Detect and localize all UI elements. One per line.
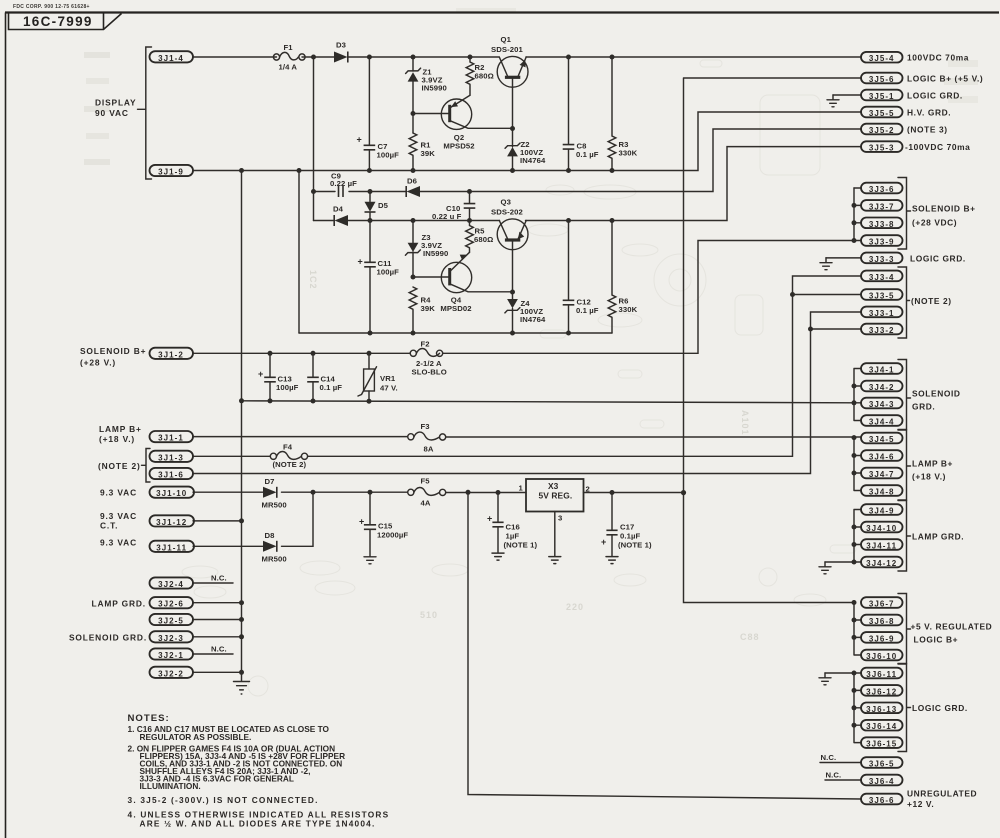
connector 3J1-12 xyxy=(150,515,195,527)
node 9.3VAC center tap xyxy=(239,518,244,523)
svg-text:3J3-1: 3J3-1 xyxy=(869,309,895,318)
wire 3J3-5 stub xyxy=(793,294,862,296)
connector 3J4-6 xyxy=(861,450,903,461)
connector 3J1-1 xyxy=(150,431,194,443)
connector 3J3-9 xyxy=(861,235,903,246)
regulator X3 xyxy=(519,479,590,556)
transistor Q3 xyxy=(491,198,528,293)
transistor Q4 xyxy=(440,252,512,313)
connector 3J4-2 xyxy=(861,381,903,392)
svg-text:3J2-5: 3J2-5 xyxy=(158,617,184,626)
svg-text:MPSD02: MPSD02 xyxy=(440,304,471,313)
diode D5 xyxy=(365,192,389,221)
svg-text:2: 2 xyxy=(586,485,590,494)
svg-text:3J3-2: 3J3-2 xyxy=(869,326,895,335)
svg-text:3J4-4: 3J4-4 xyxy=(869,418,895,427)
svg-text:220: 220 xyxy=(566,602,584,612)
wire 3J2-2 stub xyxy=(193,671,242,673)
svg-text:+: + xyxy=(359,517,364,527)
title box 16C-7999 xyxy=(9,14,122,30)
connector 3J6-10 xyxy=(861,650,903,661)
svg-text:4A: 4A xyxy=(421,499,431,508)
svg-text:3J2-6: 3J2-6 xyxy=(158,600,184,609)
svg-text:100µF: 100µF xyxy=(377,151,400,160)
svg-text:3J4-5: 3J4-5 xyxy=(869,435,895,444)
svg-text:LAMP GRD.: LAMP GRD. xyxy=(912,532,964,542)
connector 3J4-1 xyxy=(861,363,903,374)
connector 3J1-10 xyxy=(150,487,195,499)
connector 3J6-6 xyxy=(861,794,903,805)
connector 3J1-4 xyxy=(150,51,194,63)
left border rule xyxy=(5,13,7,838)
svg-text:+5 V. REGULATED: +5 V. REGULATED xyxy=(911,622,993,632)
svg-text:C16: C16 xyxy=(506,523,520,532)
svg-text:5V REG.: 5V REG. xyxy=(539,491,573,501)
svg-text:3J3-6: 3J3-6 xyxy=(869,185,895,194)
svg-text:C15: C15 xyxy=(378,522,393,531)
svg-text:IN4764: IN4764 xyxy=(520,315,546,324)
wire 3J2-4 N.C. stub xyxy=(193,582,233,584)
diode D6 xyxy=(406,177,420,198)
connector 3J4-12 xyxy=(861,557,903,568)
svg-text:3J6-6: 3J6-6 xyxy=(869,796,895,805)
svg-text:3J6-12: 3J6-12 xyxy=(866,687,897,696)
svg-text:D3: D3 xyxy=(336,41,346,50)
svg-text:C.T.: C.T. xyxy=(100,521,118,531)
svg-text:D8: D8 xyxy=(265,531,276,540)
svg-text:+12 V.: +12 V. xyxy=(907,799,934,809)
svg-text:9.3 VAC: 9.3 VAC xyxy=(100,488,137,498)
svg-text:FDC CORP. 900 12-75 61628+: FDC CORP. 900 12-75 61628+ xyxy=(13,4,90,10)
svg-text:3J6-13: 3J6-13 xyxy=(866,705,897,714)
capacitor C9 xyxy=(330,172,357,198)
wire 3J4 lamp grd bus xyxy=(854,510,861,563)
label 9.3 VAC C.T. (3J1-12) xyxy=(100,511,137,531)
connector 3J5-1 xyxy=(861,90,903,101)
svg-text:1C2: 1C2 xyxy=(308,270,318,290)
wire H.V. ground rail y=170 (3J1-9 to 3J5-5 riser) xyxy=(193,112,861,171)
connector 3J4-7 xyxy=(861,468,903,479)
svg-text:3J3-8: 3J3-8 xyxy=(869,220,895,229)
svg-text:+: + xyxy=(357,135,362,145)
svg-text:(NOTE 1): (NOTE 1) xyxy=(504,541,538,550)
svg-text:3J3-9: 3J3-9 xyxy=(869,238,895,247)
wire 3J6-11 ground stub xyxy=(825,672,854,674)
wire 3J6 +5V bus xyxy=(854,603,861,656)
svg-text:3J3-5: 3J3-5 xyxy=(869,292,895,301)
svg-text:510: 510 xyxy=(420,610,438,620)
svg-text:SOLENOID B+: SOLENOID B+ xyxy=(912,204,976,214)
connector 3J2-2 xyxy=(150,667,194,679)
svg-text:3J6-8: 3J6-8 xyxy=(869,617,895,626)
wire 3J1-3 to F4 to 3J3-4 riser xyxy=(193,276,861,456)
svg-text:NOTES:: NOTES: xyxy=(128,713,170,724)
svg-text:3J6-4: 3J6-4 xyxy=(869,777,895,786)
connector 3J3-6 xyxy=(861,183,903,194)
svg-text:3J6-5: 3J6-5 xyxy=(869,760,895,769)
svg-text:D5: D5 xyxy=(378,201,389,210)
bracket 3J4 lamp grd xyxy=(898,501,964,572)
svg-text:D4: D4 xyxy=(333,205,344,214)
ground (3J2 common) xyxy=(234,682,250,695)
capacitor C7 xyxy=(357,57,400,171)
svg-text:100µF: 100µF xyxy=(276,383,299,392)
diode D3 xyxy=(334,41,348,63)
top border rule xyxy=(5,11,999,13)
connector 3J2-1 xyxy=(150,648,194,660)
svg-text:LOGIC GRD.: LOGIC GRD. xyxy=(912,703,968,713)
svg-text:ARE ½ W. AND ALL DIODES ARE TY: ARE ½ W. AND ALL DIODES ARE TYPE 1N4004. xyxy=(140,819,376,829)
wire Q2 base xyxy=(413,113,448,115)
wire 3J2-1 N.C. stub xyxy=(193,653,233,655)
svg-text:0.1 µF: 0.1 µF xyxy=(576,306,599,315)
svg-text:3J6-14: 3J6-14 xyxy=(866,722,897,731)
wire 3J3-6 bus stubs xyxy=(854,188,861,223)
ground (3J5-1) xyxy=(827,95,839,107)
connector 3J6-8 xyxy=(861,615,903,626)
diode D7 xyxy=(262,477,287,510)
svg-text:3J6-11: 3J6-11 xyxy=(866,670,897,679)
svg-text:C88: C88 xyxy=(740,632,760,642)
svg-text:+: + xyxy=(358,257,363,267)
svg-text:(NOTE 2): (NOTE 2) xyxy=(98,461,141,471)
svg-text:3: 3 xyxy=(558,514,562,523)
resistor R2 xyxy=(466,57,494,95)
connector 3J3-4 xyxy=(861,271,903,282)
svg-text:39K: 39K xyxy=(421,149,436,158)
wire lamp B+ y=437 (3J1-1 to F3 to 3J4-5) xyxy=(193,436,861,438)
capacitor C17 xyxy=(601,493,652,557)
connector 3J6-12 xyxy=(861,685,903,696)
capacitor C12 xyxy=(563,221,599,334)
svg-text:1µF: 1µF xyxy=(506,532,520,541)
connector 3J2-3 xyxy=(150,631,194,643)
wire C9/D6 line y=191.5 (to 3J5-2) xyxy=(314,129,862,192)
wire +100V top rail (3J1-4 to F1 D3 and 3J5-4) xyxy=(193,56,861,58)
diode D8 xyxy=(262,531,287,564)
svg-text:100µF: 100µF xyxy=(377,268,400,277)
svg-text:3. 3J5-2 (-300V.) IS NOT CONNE: 3. 3J5-2 (-300V.) IS NOT CONNECTED. xyxy=(128,795,319,805)
connector 3J5-3 xyxy=(861,141,903,152)
label SOLENOID B+ left xyxy=(80,346,146,368)
svg-text:SDS-202: SDS-202 xyxy=(491,208,523,217)
wire 3J2-6 stub xyxy=(193,602,242,604)
wire -100V section left riser x=299 xyxy=(298,171,300,334)
svg-text:3J1-4: 3J1-4 xyxy=(158,54,184,63)
diode D4 xyxy=(333,205,348,227)
resistor R5 xyxy=(466,221,494,253)
svg-text:IN4764: IN4764 xyxy=(520,156,546,165)
svg-text:16C-7999: 16C-7999 xyxy=(23,14,93,29)
resistor R3 xyxy=(608,57,637,171)
svg-text:3J5-5: 3J5-5 xyxy=(869,109,895,118)
svg-text:VR1: VR1 xyxy=(380,374,396,383)
svg-text:12000µF: 12000µF xyxy=(377,531,408,540)
connector 3J4-4 xyxy=(861,415,903,426)
svg-text:GRD.: GRD. xyxy=(912,402,935,412)
ground (C15) xyxy=(364,557,376,564)
svg-text:D6: D6 xyxy=(407,177,417,186)
ground (3J3-3) xyxy=(820,258,832,270)
connector 3J3-1 xyxy=(861,307,903,318)
ground (3J4-12) xyxy=(819,562,831,574)
connector 3J2-5 xyxy=(150,614,194,626)
svg-text:+: + xyxy=(258,369,263,379)
connector 3J3-8 xyxy=(861,218,903,229)
svg-text:0.1 µF: 0.1 µF xyxy=(320,383,343,392)
wire 3J4-12 ground stub xyxy=(825,561,854,563)
connector 3J6-7 xyxy=(861,597,903,608)
connector 3J1-2 xyxy=(150,348,194,360)
bracket 3J6 +5V regulated xyxy=(898,594,992,664)
connector 3J2-4 xyxy=(150,577,194,589)
svg-text:(+18 V.): (+18 V.) xyxy=(99,434,135,444)
svg-text:0.1µF: 0.1µF xyxy=(620,532,641,541)
junction dots 3J6 buses xyxy=(852,600,857,728)
wire 3J5-6 +5V logic B+ riser x=683.5 xyxy=(684,78,862,603)
capacitor C11 xyxy=(358,221,400,334)
fuse F1 xyxy=(273,43,305,72)
connector 3J6-4 xyxy=(861,775,903,786)
wire 3J1-12 center tap xyxy=(193,520,242,522)
svg-text:3J6-15: 3J6-15 xyxy=(866,740,897,749)
capacitor C14 xyxy=(307,353,342,401)
wire 3J3 solenoid B+ bus xyxy=(853,188,855,241)
svg-text:330K: 330K xyxy=(619,149,638,158)
wire solenoid B+ y=353 (3J1-2 to F2 to 3J3-9) xyxy=(193,241,861,354)
connector 3J5-6 xyxy=(861,73,903,84)
bracket DISPLAY 90VAC xyxy=(95,47,152,179)
notes block xyxy=(128,713,390,829)
wire 3J4 solenoid grd bus xyxy=(854,369,861,421)
node Q2 collector to Q1 base xyxy=(510,126,515,131)
junction dots 3J2 ground bus xyxy=(239,600,244,675)
fuse F2 xyxy=(410,340,447,377)
connector 3J6-5 xyxy=(861,757,903,768)
svg-text:3J2-3: 3J2-3 xyxy=(158,634,184,643)
svg-text:3J1-2: 3J1-2 xyxy=(158,350,184,359)
svg-text:3J2-2: 3J2-2 xyxy=(158,669,184,678)
transistor Q1 xyxy=(491,35,528,129)
svg-text:0.1 µF: 0.1 µF xyxy=(576,150,599,159)
junction dots C9/D6 line xyxy=(311,189,472,194)
svg-text:3J1-11: 3J1-11 xyxy=(156,543,187,552)
svg-text:3J3-4: 3J3-4 xyxy=(869,273,895,282)
svg-text:(+28 V.): (+28 V.) xyxy=(80,358,116,368)
svg-text:47 V.: 47 V. xyxy=(380,384,398,393)
connector 3J4-11 xyxy=(861,539,903,550)
connector 3J6-11 xyxy=(861,668,903,679)
svg-text:3J5-4: 3J5-4 xyxy=(869,54,895,63)
wire -100V output line y=220.5 (to 3J5-3) xyxy=(314,147,862,221)
wire 3J4 lamp B+ bus xyxy=(854,438,861,491)
zener Z1 xyxy=(406,57,447,133)
bracket 3J6 logic grd xyxy=(898,664,968,752)
svg-text:100VDC 70ma: 100VDC 70ma xyxy=(907,53,969,63)
bracket 3J3 (NOTE 2) xyxy=(898,267,952,338)
wire 9.3VAC D7 rectified +12V line y=492 xyxy=(193,491,684,493)
zener Z4 xyxy=(505,292,546,333)
svg-text:LOGIC GRD.: LOGIC GRD. xyxy=(907,90,963,100)
wire 3J2-5 stub xyxy=(193,619,242,621)
svg-text:N.C.: N.C. xyxy=(211,645,227,654)
svg-text:3J5-6: 3J5-6 xyxy=(869,75,895,84)
svg-text:1/4 A: 1/4 A xyxy=(279,63,298,72)
svg-text:(NOTE 2): (NOTE 2) xyxy=(273,460,307,469)
svg-text:H.V. GRD.: H.V. GRD. xyxy=(907,107,951,117)
svg-text:(NOTE 1): (NOTE 1) xyxy=(618,541,652,550)
svg-text:(+28 VDC): (+28 VDC) xyxy=(912,218,957,228)
svg-text:3J5-3: 3J5-3 xyxy=(869,144,895,153)
svg-text:UNREGULATED: UNREGULATED xyxy=(907,789,977,799)
resistor R1 xyxy=(409,133,435,171)
svg-text:+: + xyxy=(487,514,492,524)
svg-text:3J3-3: 3J3-3 xyxy=(869,255,895,264)
svg-text:3J4-12: 3J4-12 xyxy=(866,559,897,568)
wire 3J2-3 stub xyxy=(193,636,242,638)
connector 3J4-10 xyxy=(861,522,903,533)
bracket 3J4 lamp B+ xyxy=(898,430,953,500)
wire unregulated +12V to 3J6-6 xyxy=(468,492,861,799)
svg-text:F2: F2 xyxy=(421,340,430,349)
ground (X3 pin 3) xyxy=(549,557,561,564)
junction dots +12V line xyxy=(311,490,687,496)
svg-text:F4: F4 xyxy=(283,443,293,452)
svg-text:LAMP B+: LAMP B+ xyxy=(912,459,953,469)
capacitor C15 xyxy=(359,492,408,556)
connector 3J6-9 xyxy=(861,632,903,643)
wire 3J3-2 stub xyxy=(811,328,862,330)
connector 3J2-6 xyxy=(150,597,194,609)
node Q4 collector to Q3 base xyxy=(510,290,515,295)
junction dots solenoid B+ line xyxy=(268,351,372,356)
resistor R6 xyxy=(608,221,637,334)
svg-text:C17: C17 xyxy=(620,523,634,532)
wire rectifier node riser x=313.5 xyxy=(313,57,315,221)
ground (C17) xyxy=(606,557,618,564)
svg-text:90 VAC: 90 VAC xyxy=(95,108,129,118)
svg-text:X3: X3 xyxy=(548,481,559,491)
svg-text:SOLENOID: SOLENOID xyxy=(912,389,961,399)
wire 3J1-6 to 3J3-1 riser xyxy=(193,312,861,474)
zener Z2 xyxy=(505,128,546,171)
connector 3J1-6 xyxy=(150,468,194,480)
resistor R4 xyxy=(409,287,435,333)
node 3J3-2 tie xyxy=(808,327,813,332)
svg-text:3J4-7: 3J4-7 xyxy=(869,470,895,479)
connector 3J4-5 xyxy=(861,433,903,444)
svg-text:-100VDC 70ma: -100VDC 70ma xyxy=(905,142,970,152)
svg-text:D7: D7 xyxy=(265,477,275,486)
svg-text:3J2-4: 3J2-4 xyxy=(158,580,184,589)
svg-text:3J4-11: 3J4-11 xyxy=(866,542,897,551)
svg-text:+: + xyxy=(601,537,606,547)
svg-text:9.3 VAC: 9.3 VAC xyxy=(100,538,137,548)
svg-text:680Ω: 680Ω xyxy=(474,235,493,244)
svg-text:3J3-7: 3J3-7 xyxy=(869,202,895,211)
svg-text:3J1-10: 3J1-10 xyxy=(156,489,187,498)
node lamp B+ at 3J4-5 xyxy=(852,435,857,440)
connector 3J4-9 xyxy=(861,504,903,515)
svg-text:F1: F1 xyxy=(284,43,294,52)
svg-text:(+18 V.): (+18 V.) xyxy=(912,472,946,482)
svg-text:0.22 u F: 0.22 u F xyxy=(432,212,462,221)
svg-text:9.3 VAC: 9.3 VAC xyxy=(100,511,137,521)
svg-text:N.C.: N.C. xyxy=(211,574,227,583)
transistor Q2 xyxy=(441,95,512,150)
svg-text:ILLUMINATION.: ILLUMINATION. xyxy=(140,781,201,791)
fuse F3 xyxy=(408,422,446,454)
node Q4 base xyxy=(411,275,416,280)
connector 3J3-7 xyxy=(861,200,903,211)
connector 3J6-15 xyxy=(861,737,903,748)
connector 3J4-3 xyxy=(861,398,903,409)
connector 3J1-9 xyxy=(150,165,194,177)
svg-text:3J5-1: 3J5-1 xyxy=(869,92,895,101)
wire 3J1-11 D8 line and riser x=313 xyxy=(193,492,313,546)
connector 3J6-13 xyxy=(861,703,903,714)
svg-text:LOGIC B+: LOGIC B+ xyxy=(914,635,959,645)
svg-text:MR500: MR500 xyxy=(262,501,287,510)
bracket 3J3 solenoid B+ xyxy=(898,178,976,250)
svg-text:330K: 330K xyxy=(619,305,638,314)
svg-text:1: 1 xyxy=(519,484,524,493)
svg-text:SOLENOID B+: SOLENOID B+ xyxy=(80,346,146,356)
svg-text:3J4-8: 3J4-8 xyxy=(869,488,895,497)
capacitor C13 xyxy=(258,353,299,401)
svg-text:(NOTE 2): (NOTE 2) xyxy=(911,296,952,306)
connector 3J4-8 xyxy=(861,485,903,496)
connector 3J5-4 xyxy=(861,52,903,63)
svg-text:LOGIC GRD.: LOGIC GRD. xyxy=(910,253,966,263)
junction dots +100V rail xyxy=(311,55,615,60)
wire 3J5-1 ground stub xyxy=(833,94,861,96)
svg-text:SLO-BLO: SLO-BLO xyxy=(412,368,447,377)
svg-text:3J4-1: 3J4-1 xyxy=(869,366,895,375)
svg-text:SOLENOID GRD.: SOLENOID GRD. xyxy=(69,633,147,643)
svg-text:F5: F5 xyxy=(421,477,431,486)
capacitor C10 xyxy=(432,192,475,222)
connector 3J3-2 xyxy=(861,324,903,335)
svg-text:680Ω: 680Ω xyxy=(475,72,494,81)
svg-text:3J4-3: 3J4-3 xyxy=(869,400,895,409)
svg-text:8A: 8A xyxy=(424,445,434,454)
node 3J3-5 tie xyxy=(790,292,795,297)
svg-text:3J1-3: 3J1-3 xyxy=(158,453,184,462)
svg-text:Q3: Q3 xyxy=(501,198,511,207)
wire 3J3-3 ground stub xyxy=(826,257,861,259)
svg-text:N.C.: N.C. xyxy=(826,771,842,780)
svg-text:3J1-9: 3J1-9 xyxy=(158,168,184,177)
svg-text:LOGIC B+ (+5 V.): LOGIC B+ (+5 V.) xyxy=(907,73,983,83)
ground (C16) xyxy=(492,553,504,560)
svg-text:3J5-2: 3J5-2 xyxy=(869,126,895,135)
connector 3J5-2 xyxy=(861,124,903,135)
fuse F5 xyxy=(408,477,446,508)
label UNREGULATED +12V xyxy=(907,789,977,810)
svg-text:3J4-6: 3J4-6 xyxy=(869,453,895,462)
capacitor C8 xyxy=(563,57,599,171)
junction dots -100V bottom rail xyxy=(368,331,572,336)
svg-text:39K: 39K xyxy=(421,304,436,313)
svg-text:3J4-2: 3J4-2 xyxy=(869,383,895,392)
wire ground riser x=241.5 (to 3J2 bus) xyxy=(241,171,243,682)
zener Z3 xyxy=(405,221,448,278)
svg-text:MR500: MR500 xyxy=(262,555,287,564)
wire 3J6-5 N.C. stub xyxy=(820,762,861,764)
capacitor C16 xyxy=(487,493,538,553)
svg-text:IN5990: IN5990 xyxy=(423,249,448,258)
